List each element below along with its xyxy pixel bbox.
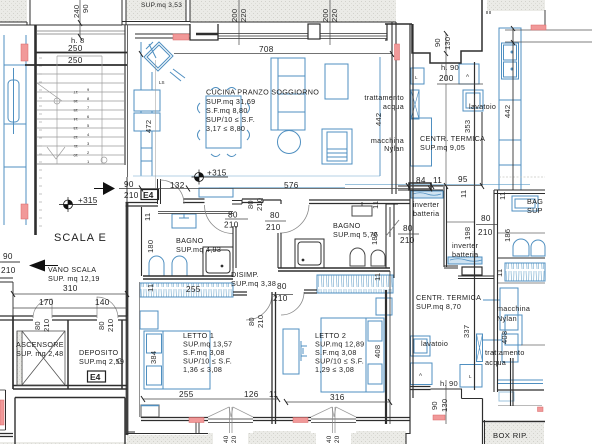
ascensore deposito walls <box>0 316 33 320</box>
svg-text:BAGNO: BAGNO <box>176 236 204 245</box>
svg-text:E4: E4 <box>143 190 154 200</box>
svg-text:SUP/10 ≤ S.F.: SUP/10 ≤ S.F. <box>206 115 255 124</box>
right unit bed/equipment <box>483 288 543 401</box>
bed letto2 <box>321 298 392 392</box>
svg-text:40: 40 <box>223 435 230 443</box>
svg-text:80: 80 <box>481 214 491 223</box>
apartment left outer wall <box>126 202 129 435</box>
svg-text:408: 408 <box>373 345 382 358</box>
svg-text:h. 90: h. 90 <box>440 379 458 388</box>
cucina top wall <box>135 34 190 38</box>
cucina right wall <box>392 22 396 194</box>
svg-text:VANO SCALA: VANO SCALA <box>48 265 96 274</box>
svg-text:170: 170 <box>39 298 54 307</box>
svg-text:inverter: inverter <box>413 200 440 209</box>
svg-text:210: 210 <box>124 191 139 200</box>
svg-text:80: 80 <box>33 321 42 330</box>
bottom wall with windows <box>141 418 208 421</box>
svg-text:80: 80 <box>97 321 106 330</box>
svg-text:220: 220 <box>239 9 248 22</box>
bagno1 toilets <box>149 256 187 276</box>
svg-text:220: 220 <box>330 9 339 22</box>
svg-text:210: 210 <box>266 223 281 232</box>
stipple areas top <box>0 0 545 22</box>
top-right boundary <box>385 23 412 25</box>
svg-text:210: 210 <box>256 315 265 328</box>
dimension ticks <box>11 20 515 405</box>
right unit toilets <box>513 239 545 256</box>
svg-text:20: 20 <box>334 435 341 443</box>
svg-text:130: 130 <box>443 37 452 50</box>
svg-text:BOX RIP.: BOX RIP. <box>493 431 528 440</box>
svg-text:11: 11 <box>371 201 380 209</box>
cucina right inner face <box>379 57 381 176</box>
svg-text:Nylan: Nylan <box>497 314 517 323</box>
svg-text:90: 90 <box>124 180 134 189</box>
svg-text:210: 210 <box>42 319 51 332</box>
svg-text:472: 472 <box>144 120 153 133</box>
right unit kitchen strip <box>499 28 521 190</box>
svg-text:SUP.mq 9,05: SUP.mq 9,05 <box>420 143 465 152</box>
svg-text:708: 708 <box>259 45 274 54</box>
svg-text:11: 11 <box>495 269 504 277</box>
sofa <box>271 58 305 130</box>
svg-text:SUP: SUP <box>527 206 543 215</box>
svg-text:90: 90 <box>430 401 439 410</box>
svg-text:186: 186 <box>503 229 512 242</box>
svg-text:SCALA E: SCALA E <box>54 232 107 244</box>
armchair <box>322 129 352 164</box>
svg-text:SUP.mq 31,69: SUP.mq 31,69 <box>206 97 255 106</box>
svg-text:13: 13 <box>73 126 78 131</box>
fraction bars <box>0 189 141 262</box>
termica2 bottom walls <box>410 387 431 390</box>
svg-text:SUP.mq 4,93: SUP.mq 4,93 <box>176 245 221 254</box>
right unit faint floor line <box>499 176 545 178</box>
svg-text:180: 180 <box>146 240 155 253</box>
svg-text:200: 200 <box>230 9 239 22</box>
svg-text:11: 11 <box>269 390 278 399</box>
svg-text:ASCENSORE: ASCENSORE <box>16 340 64 349</box>
svg-text:353: 353 <box>463 120 472 133</box>
svg-text:macchina: macchina <box>497 304 530 313</box>
right unit washbasin <box>512 196 538 211</box>
svg-text:20: 20 <box>231 435 238 443</box>
svg-text:210: 210 <box>224 221 239 230</box>
svg-text:198: 198 <box>463 227 472 240</box>
svg-text:80: 80 <box>270 211 280 220</box>
svg-text:210: 210 <box>400 236 415 245</box>
svg-text:batteria: batteria <box>452 250 478 259</box>
letto2 right wall <box>385 290 387 424</box>
svg-text:84: 84 <box>416 176 426 185</box>
bagno2 door arc <box>280 205 309 233</box>
svg-text:14: 14 <box>73 117 78 122</box>
svg-text:Nylan: Nylan <box>384 144 404 153</box>
round table <box>278 131 301 154</box>
corridor blue lines <box>219 185 530 188</box>
desk letto2 <box>283 329 307 374</box>
E4 entrance door leaf + arc <box>158 179 161 204</box>
svg-text:80: 80 <box>247 317 256 326</box>
svg-text:126: 126 <box>244 390 259 399</box>
svg-text:A: A <box>466 73 469 78</box>
termica1: lavatoio + boxes <box>411 64 483 111</box>
svg-text:1,29 ≤ 3,08: 1,29 ≤ 3,08 <box>315 365 354 374</box>
svg-text:SUP.mq 3,53: SUP.mq 3,53 <box>141 2 182 9</box>
svg-text:255: 255 <box>179 390 194 399</box>
svg-text:10: 10 <box>73 153 78 158</box>
svg-text:130: 130 <box>440 399 449 412</box>
svg-text:SUP. mq 12,19: SUP. mq 12,19 <box>48 274 100 283</box>
right unit bottom right bits <box>544 10 546 30</box>
svg-text:80: 80 <box>228 211 238 220</box>
svg-text:LS: LS <box>159 80 165 85</box>
svg-text:trattamento: trattamento <box>485 348 525 357</box>
dim lines top right <box>505 30 592 42</box>
svg-text:132: 132 <box>170 181 185 190</box>
svg-text:DEPOSITO: DEPOSITO <box>79 348 119 357</box>
svg-text:SUP.mq 3,38: SUP.mq 3,38 <box>231 279 276 288</box>
balcony left <box>4 35 26 225</box>
svg-text:+315: +315 <box>78 196 98 205</box>
svg-text:90: 90 <box>81 4 90 13</box>
svg-text:1,36 ≤ 3,08: 1,36 ≤ 3,08 <box>183 365 222 374</box>
svg-text:SUP.mq 8,70: SUP.mq 8,70 <box>416 302 461 311</box>
wardrobe letto1 <box>140 283 233 297</box>
svg-text:12: 12 <box>73 135 78 140</box>
svg-text:A: A <box>419 372 422 377</box>
svg-text:576: 576 <box>284 181 299 190</box>
svg-text:210: 210 <box>255 198 264 211</box>
kitchen counter left <box>134 42 185 176</box>
bagno1 walls <box>141 207 143 276</box>
svg-text:11: 11 <box>373 273 382 281</box>
cucina floor edge line <box>133 175 380 177</box>
svg-text:acqua: acqua <box>485 358 506 367</box>
svg-text:+315: +315 <box>207 169 227 178</box>
svg-text:11: 11 <box>143 213 152 221</box>
svg-text:240: 240 <box>72 5 81 18</box>
stipple areas bottom (balconies) <box>0 421 544 444</box>
svg-text:210: 210 <box>478 228 493 237</box>
svg-text:SUP.mq 5,76: SUP.mq 5,76 <box>333 230 378 239</box>
svg-text:batteria: batteria <box>413 209 439 218</box>
bottom-left room <box>14 398 16 444</box>
svg-text:80: 80 <box>403 224 413 233</box>
svg-text:DISIMP.: DISIMP. <box>231 270 259 279</box>
corridor top wall with doors <box>142 203 158 207</box>
svg-text:310: 310 <box>63 284 78 293</box>
svg-text:250: 250 <box>68 44 83 53</box>
svg-text:40: 40 <box>326 435 333 443</box>
bagno2 fixtures (gray) <box>350 202 385 266</box>
svg-text:S.F.mq 8,80: S.F.mq 8,80 <box>206 106 248 115</box>
tv sideboard <box>325 64 348 99</box>
svg-text:384: 384 <box>149 351 158 364</box>
svg-text:17: 17 <box>73 90 78 95</box>
svg-text:80: 80 <box>246 200 255 209</box>
stair steps <box>37 56 124 164</box>
svg-text:CUCINA PRANZO SOGGIORNO: CUCINA PRANZO SOGGIORNO <box>206 88 319 97</box>
svg-text:316: 316 <box>330 393 345 402</box>
battery 1 <box>411 191 443 198</box>
stair walls <box>34 25 37 235</box>
svg-text:16: 16 <box>73 99 78 104</box>
svg-text:200: 200 <box>321 9 330 22</box>
svg-text:CENTR. TERMICA: CENTR. TERMICA <box>416 293 481 302</box>
shower bagno2 <box>295 239 324 268</box>
svg-text:11: 11 <box>459 190 468 198</box>
svg-text:BAG: BAG <box>527 197 543 206</box>
svg-text:SUP.mq 2,59: SUP.mq 2,59 <box>79 357 124 366</box>
bed letto1 <box>140 311 210 389</box>
svg-text:lavatoio: lavatoio <box>421 339 448 348</box>
vano scala lower walls <box>0 278 13 282</box>
svg-text:442: 442 <box>374 113 383 126</box>
shaft right wall / termica left wall <box>410 24 413 434</box>
svg-text:lavatoio: lavatoio <box>469 102 496 111</box>
svg-text:11: 11 <box>433 176 442 185</box>
cucina left wall <box>127 25 129 177</box>
svg-text:15: 15 <box>73 108 78 113</box>
svg-text:BAGNO: BAGNO <box>333 221 361 230</box>
disimp walls <box>233 292 247 295</box>
kitchen corner sink diamond <box>144 42 173 71</box>
svg-text:11: 11 <box>146 284 155 292</box>
svg-text:337: 337 <box>462 325 471 338</box>
dining table <box>198 88 250 157</box>
bagno1 door arc <box>205 205 234 234</box>
svg-text:210: 210 <box>106 319 115 332</box>
svg-text:h. 90: h. 90 <box>441 63 459 72</box>
stair step numbers <box>73 87 90 164</box>
svg-text:90: 90 <box>433 38 442 47</box>
svg-text:trattamento: trattamento <box>364 93 404 102</box>
svg-text:inverter: inverter <box>452 241 479 250</box>
bagno1 washbasin <box>172 214 196 228</box>
wardrobe right unit <box>505 263 545 281</box>
svg-text:210: 210 <box>273 294 288 303</box>
svg-text:80: 80 <box>277 282 287 291</box>
svg-text:3,17 ≤ 8,80: 3,17 ≤ 8,80 <box>206 124 245 133</box>
svg-text:210: 210 <box>1 266 16 275</box>
battery 2 <box>448 257 482 264</box>
shower bagno1 <box>203 247 233 276</box>
svg-text:408: 408 <box>500 331 509 344</box>
wardrobe letto2 <box>317 275 393 293</box>
svg-text:11: 11 <box>498 192 507 200</box>
svg-text:acqua: acqua <box>383 102 404 111</box>
svg-text:140: 140 <box>95 298 110 307</box>
svg-text:200: 200 <box>439 74 454 83</box>
svg-text:E4: E4 <box>90 372 101 382</box>
termica1 equipment: x-box + boiler <box>411 90 432 166</box>
lift <box>17 331 65 385</box>
top boundary <box>0 24 122 26</box>
svg-text:SUP. mq 2,48: SUP. mq 2,48 <box>16 349 63 358</box>
svg-text:442: 442 <box>503 105 512 118</box>
svg-text:CENTR. TERMICA: CENTR. TERMICA <box>420 134 485 143</box>
corridor radiator <box>199 188 233 197</box>
bagno2 bottom wall <box>278 268 390 271</box>
termica2 fixtures <box>411 334 483 387</box>
svg-text:90: 90 <box>3 252 13 261</box>
right rooms walls <box>398 186 443 190</box>
right unit walls <box>494 190 545 194</box>
svg-text:255: 255 <box>186 285 201 294</box>
svg-text:250: 250 <box>68 56 83 65</box>
svg-text:95: 95 <box>458 175 468 184</box>
